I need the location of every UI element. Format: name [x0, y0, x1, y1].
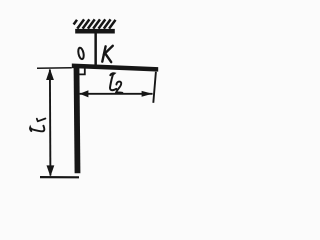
l2 right arrowhead [142, 91, 153, 97]
l1 dimension line [49, 70, 52, 176]
l2 left arrowhead [80, 90, 89, 97]
l2 dimension line [80, 93, 153, 95]
label O [77, 47, 84, 59]
label l1 (rotated script ell) [30, 126, 44, 132]
horizontal bar of L-rod [72, 64, 158, 72]
label K [102, 46, 113, 62]
ceiling line [75, 29, 115, 34]
extension line top (l1) [37, 67, 72, 70]
l1 top arrowhead [46, 69, 54, 80]
ceiling hatching [74, 19, 116, 28]
label l2 (script ell) [110, 73, 116, 90]
label l2 subscript 2 [116, 82, 122, 93]
vertical bar of L-rod [74, 67, 81, 173]
l1 bottom arrowhead [47, 165, 55, 176]
right-angle mark [79, 68, 84, 74]
label l1 subscript 1 (rotated) [37, 119, 46, 122]
string (pivot link) [94, 33, 97, 65]
extension line bottom (l1) [40, 176, 79, 178]
extension line right (l2) [153, 72, 156, 103]
